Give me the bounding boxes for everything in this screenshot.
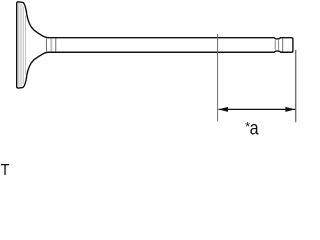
svg-text:a: a	[250, 117, 259, 139]
collar line right	[55, 38, 57, 51]
label *a letter	[250, 117, 259, 139]
dimension line	[219, 108, 296, 110]
collar shading band	[50, 39, 52, 52]
face shading line 3	[22, 6, 24, 84]
dimension arrow right	[285, 107, 295, 112]
face shading line 2	[20, 4, 22, 86]
tip groove wall left	[274, 40, 276, 50]
tip groove wall right	[278, 40, 280, 50]
valve silhouette	[17, 2, 293, 88]
face shading line 4	[24, 16, 26, 75]
tip land line	[282, 38, 284, 51]
extension line left	[217, 34, 219, 121]
face shading line 1	[18, 3, 20, 87]
extension line right	[295, 50, 297, 123]
svg-text:T: T	[1, 161, 10, 175]
dimension arrow left	[218, 107, 228, 112]
label T	[1, 161, 10, 179]
collar line left	[45, 38, 47, 51]
